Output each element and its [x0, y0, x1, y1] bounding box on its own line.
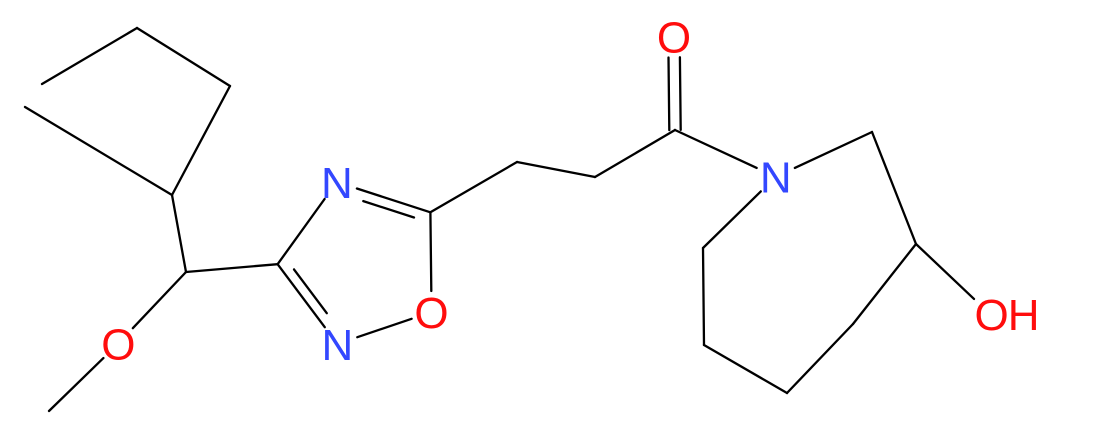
- bond C5=N4 inner: [363, 201, 414, 217]
- bond C5-C6 azepane: [704, 345, 787, 393]
- bond N-C2 azepane: [795, 132, 872, 168]
- bond C6-C7 azepane: [703, 248, 704, 345]
- bond C3-OH: [916, 244, 974, 299]
- bond C=O line1: [679, 57, 682, 130]
- bond O-CH3 methoxy methyl: [49, 358, 103, 411]
- bond carbonylC-N amide: [675, 130, 757, 168]
- bond C5-CH2 chain: [430, 162, 517, 212]
- svg-text:O: O: [101, 320, 135, 369]
- bond CH3-CH long left: [25, 107, 172, 195]
- bond C7-N azepane: [703, 191, 761, 248]
- bond C3=N2 inner: [294, 269, 327, 313]
- svg-text:N: N: [322, 321, 354, 370]
- bond CH-O methoxy: [133, 272, 186, 328]
- bond C3-N4 oxadiazole: [278, 199, 325, 264]
- bond CH-CHOMe: [172, 195, 186, 272]
- bond CH2-CH2 top-left: [137, 28, 230, 86]
- svg-text:O: O: [414, 289, 448, 338]
- bond C2-C3 azepane: [872, 132, 916, 244]
- bond CH3-CH2 top-left methyl: [42, 28, 137, 84]
- bond CH2-CH2 chain: [517, 162, 595, 177]
- bond C3-C4 azepane: [853, 244, 916, 324]
- svg-text:OH: OH: [975, 291, 1039, 340]
- bond CH2-carbonyl C: [595, 130, 675, 177]
- bond CH2-CH top-left: [172, 86, 230, 195]
- bond O1-C5 oxadiazole: [429, 212, 432, 291]
- svg-text:O: O: [657, 13, 691, 62]
- bond C3=N2 main: [278, 264, 325, 327]
- bond CHOMe-C3 ring: [186, 264, 278, 272]
- svg-text:N: N: [760, 154, 792, 203]
- bond C=O line2: [667, 58, 670, 131]
- bond C4-C5 azepane: [787, 324, 853, 393]
- bond N2-O1 oxadiazole: [357, 319, 411, 337]
- svg-text:N: N: [321, 159, 353, 208]
- bond C5=N4 main: [357, 189, 431, 213]
